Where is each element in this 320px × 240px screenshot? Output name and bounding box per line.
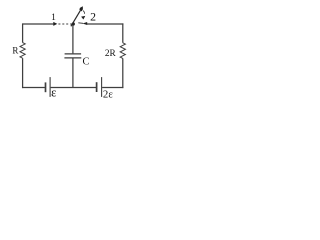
wire bottom-left horizontal bbox=[22, 87, 45, 89]
wire left vertical upper bbox=[22, 23, 24, 42]
battery 2ε long plate bbox=[101, 77, 103, 97]
capacitor C top plate bbox=[65, 53, 82, 55]
svg-text:2: 2 bbox=[90, 10, 96, 24]
switch lever arrowhead bbox=[79, 6, 83, 11]
capacitor C bottom plate bbox=[64, 57, 81, 59]
wire bottom-middle horizontal bbox=[51, 87, 96, 89]
wire right vertical lower bbox=[122, 58, 124, 88]
svg-text:ε: ε bbox=[51, 86, 56, 100]
resistor R zigzag bbox=[20, 43, 25, 59]
svg-text:2ε: 2ε bbox=[103, 89, 113, 101]
svg-text:1: 1 bbox=[51, 13, 56, 23]
switch pivot dot bbox=[72, 22, 75, 25]
background bbox=[0, 0, 162, 109]
switch contact 1 arrowhead bbox=[53, 22, 57, 26]
wire top-right horizontal bbox=[87, 23, 124, 25]
switch motion arrowhead bbox=[81, 16, 85, 20]
battery ε long plate bbox=[49, 77, 51, 97]
wire top-left horizontal bbox=[23, 23, 54, 25]
wire bottom-right horizontal bbox=[102, 87, 123, 89]
battery 2ε short plate bbox=[96, 82, 98, 92]
switch lever bbox=[71, 10, 81, 26]
battery ε short plate bbox=[45, 82, 47, 92]
svg-text:R: R bbox=[12, 46, 18, 56]
switch motion arc bbox=[83, 11, 85, 14]
wire capacitor branch upper bbox=[72, 24, 74, 53]
switch contact 2 thin tip line bbox=[78, 22, 83, 25]
svg-text:2R: 2R bbox=[105, 49, 117, 59]
switch contact 2 arrowhead bbox=[82, 22, 87, 25]
wire right vertical upper bbox=[122, 23, 124, 42]
svg-text:C: C bbox=[82, 57, 89, 68]
switch dashed wire (old lever position) bbox=[58, 23, 71, 25]
wire capacitor branch lower bbox=[72, 58, 74, 87]
resistor 2R zigzag bbox=[120, 43, 125, 59]
wire left vertical lower bbox=[22, 58, 24, 88]
